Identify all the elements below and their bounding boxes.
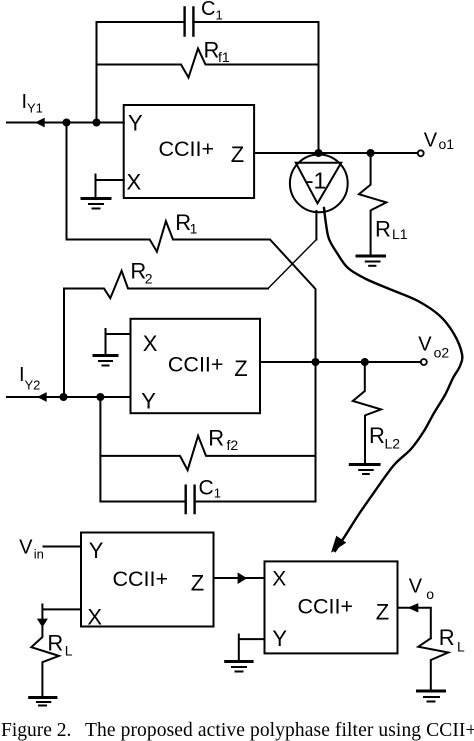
- svg-text:R: R: [439, 625, 455, 650]
- svg-text:1: 1: [214, 486, 221, 501]
- svg-text:L: L: [65, 643, 73, 659]
- svg-text:o2: o2: [434, 345, 450, 361]
- svg-text:-1: -1: [306, 168, 326, 194]
- svg-text:R: R: [208, 425, 224, 450]
- svg-text:R: R: [375, 217, 391, 242]
- svg-text:1: 1: [190, 221, 198, 237]
- svg-text:Y1: Y1: [27, 101, 43, 116]
- svg-text:o: o: [426, 586, 434, 602]
- svg-text:V: V: [19, 537, 33, 559]
- svg-text:L: L: [457, 638, 465, 654]
- svg-text:R: R: [204, 37, 220, 62]
- svg-text:f1: f1: [218, 49, 230, 65]
- svg-text:f2: f2: [227, 437, 239, 453]
- svg-text:2: 2: [145, 271, 153, 287]
- svg-text:X: X: [127, 170, 142, 195]
- svg-text:Y: Y: [89, 538, 104, 563]
- svg-text:Z: Z: [231, 142, 244, 167]
- svg-text:in: in: [34, 547, 44, 562]
- svg-text:V: V: [418, 334, 432, 356]
- svg-text:V: V: [409, 576, 423, 598]
- svg-text:Z: Z: [191, 571, 204, 596]
- svg-text:Z: Z: [234, 356, 247, 381]
- svg-text:Y: Y: [272, 626, 287, 651]
- svg-text:X: X: [143, 331, 158, 356]
- svg-text:C: C: [201, 0, 215, 20]
- svg-text:CCII+: CCII+: [113, 567, 169, 591]
- svg-text:CCII+: CCII+: [159, 137, 215, 161]
- svg-text:Y: Y: [128, 110, 143, 135]
- svg-text:L1: L1: [392, 226, 408, 242]
- svg-text:1: 1: [216, 8, 223, 23]
- svg-text:R: R: [369, 423, 385, 448]
- svg-text:V: V: [424, 130, 438, 152]
- svg-text:CCII+: CCII+: [298, 595, 354, 619]
- svg-text:L2: L2: [385, 436, 401, 452]
- svg-text:Z: Z: [376, 600, 389, 625]
- svg-text:X: X: [87, 605, 102, 630]
- svg-text:X: X: [272, 568, 286, 591]
- svg-text:Y2: Y2: [25, 378, 41, 393]
- svg-text:CCII+: CCII+: [168, 353, 224, 377]
- svg-text:R: R: [47, 630, 63, 655]
- svg-text:The proposed active polyphase: The proposed active polyphase filter usi…: [85, 720, 474, 741]
- svg-text:C: C: [199, 477, 214, 500]
- svg-text:Figure 2.: Figure 2.: [1, 720, 71, 741]
- svg-text:Y: Y: [141, 389, 156, 414]
- svg-text:o1: o1: [439, 136, 455, 152]
